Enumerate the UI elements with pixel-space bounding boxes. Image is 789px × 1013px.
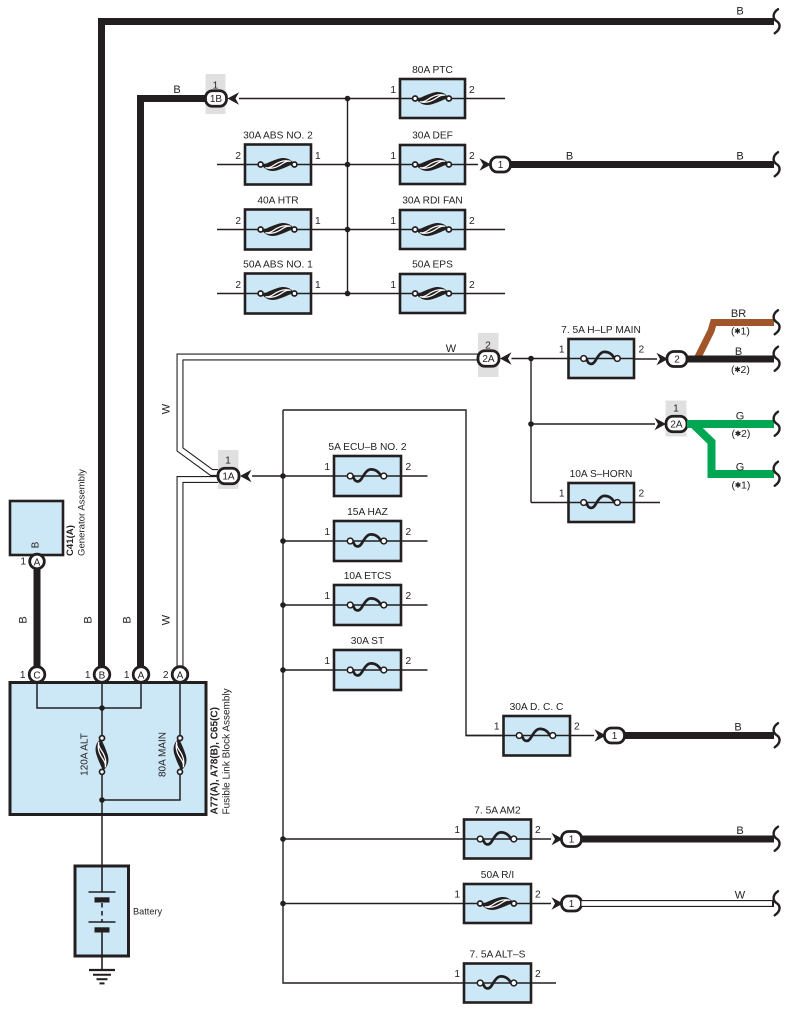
battery plate long top (89, 891, 116, 893)
svg-text:2A: 2A (482, 354, 495, 365)
svg-text:1: 1 (20, 670, 26, 681)
wire break R/I W (774, 891, 780, 915)
wire: x531 to connector 2A green (531, 423, 655, 425)
svg-text:1: 1 (324, 656, 330, 667)
wire: green G upper (687, 420, 774, 428)
svg-text:2: 2 (639, 489, 645, 500)
svg-text:1: 1 (559, 345, 565, 356)
svg-text:1: 1 (390, 280, 396, 291)
battery plate thick bottom (95, 927, 110, 932)
junction bus2 row ECU-B (280, 473, 286, 479)
svg-text:80A MAIN: 80A MAIN (158, 732, 169, 777)
svg-text:1: 1 (124, 670, 130, 681)
svg-text:(: ( (732, 428, 736, 440)
wire: thick B from D.C.C connector (625, 732, 775, 739)
svg-text:2: 2 (406, 527, 412, 538)
arrow out of H-LP MAIN (657, 353, 669, 365)
svg-text:G: G (736, 462, 745, 474)
connector 1 after AM2 (562, 832, 582, 847)
connector 1A oval (218, 468, 239, 484)
svg-text:A: A (34, 557, 41, 568)
wire row 2: stub through 30A ABS NO.2 and 30A DEF (217, 164, 478, 166)
svg-text:2: 2 (574, 722, 580, 733)
svg-text:1: 1 (225, 456, 231, 467)
wire row 10A ETCS (283, 604, 428, 606)
svg-text:B: B (736, 6, 743, 18)
wire break AM2 B (774, 827, 780, 851)
svg-text:2: 2 (469, 216, 475, 227)
connector 1B label plate (206, 74, 226, 114)
bus2 vertical x283 with bottom turn to ALT-S (283, 410, 556, 983)
battery plate thick top (95, 897, 110, 902)
svg-text:2: 2 (535, 890, 541, 901)
fusible link 80A MAIN (174, 736, 187, 775)
svg-text:2: 2 (674, 355, 680, 366)
connector 2A oval (478, 351, 499, 367)
junction bus2 row HAZ (280, 538, 286, 544)
wire: thick B from DEF connector to right edge (511, 161, 775, 168)
svg-text:B: B (31, 541, 42, 548)
svg-text:W: W (161, 614, 173, 625)
svg-text:15A HAZ: 15A HAZ (347, 507, 388, 518)
svg-text:2: 2 (535, 969, 541, 980)
svg-text:2: 2 (406, 462, 412, 473)
svg-text:2): 2) (741, 364, 750, 376)
connector 2A (white wire) label plate (478, 333, 499, 377)
svg-text:50A ABS NO. 1: 50A ABS NO. 1 (243, 260, 313, 271)
svg-text:7. 5A ALT–S: 7. 5A ALT–S (470, 950, 526, 961)
block internal wire pin B down (101, 683, 103, 736)
svg-text:G: G (736, 411, 745, 423)
svg-text:1): 1) (741, 326, 750, 338)
junction at x531 G row (528, 421, 534, 427)
bus wire vertical x347 (347, 99, 349, 294)
wire: thick B from connector 2 (687, 356, 774, 363)
svg-text:1B: 1B (210, 94, 223, 105)
block internal wire pin C to pin A (37, 683, 141, 709)
generator pin A circle (30, 554, 45, 569)
svg-text:30A ABS NO. 2: 30A ABS NO. 2 (243, 131, 313, 142)
connector 1 after R/I (562, 896, 582, 911)
wire row 50A R/I (283, 903, 551, 905)
svg-text:A77(A), A78(B), C65(C): A77(A), A78(B), C65(C) (210, 707, 221, 814)
connector 2A green label plate (666, 401, 687, 437)
svg-text:B: B (122, 616, 134, 623)
connector 1 after D.C.C (605, 728, 625, 743)
svg-text:1: 1 (315, 151, 321, 162)
svg-text:2: 2 (235, 280, 241, 291)
battery box (75, 866, 129, 956)
arrow into connector 1A (240, 470, 252, 482)
generator assembly C41(A) box (10, 501, 63, 555)
wire: white W from R/I connector (582, 900, 775, 907)
fuse 7.5A AM2 (464, 820, 531, 859)
svg-text:1: 1 (315, 216, 321, 227)
arrow out of R/I (552, 897, 564, 909)
wire: H-LP MAIN pin 2 to arrow (634, 358, 657, 360)
svg-text:1): 1) (741, 480, 750, 492)
svg-text:Generator Assembly: Generator Assembly (77, 469, 88, 556)
fusible link 120A ALT (96, 736, 109, 775)
svg-text:1: 1 (454, 825, 460, 836)
arrow out of AM2 (552, 833, 564, 845)
arrow out of 30A D.C.C (595, 729, 607, 741)
wire row 4: stub through 50A ABS NO.1 and 50A EPS (217, 293, 505, 295)
svg-text:1: 1 (390, 151, 396, 162)
fusible link 30A DEF (400, 145, 465, 184)
svg-text:1: 1 (20, 557, 26, 568)
fusible link 30A RDI FAN (400, 210, 465, 249)
wire: thick B from connector 1B down to fusible link pin A (137, 95, 207, 102)
svg-text:A: A (177, 670, 184, 681)
battery dashed middle (101, 903, 103, 922)
fusible link 30A ABS NO.2 (245, 145, 311, 185)
wire break DEF B wire (774, 152, 780, 176)
fuse 5A ECU-B NO.2 (334, 456, 401, 496)
fuse 30A D.C.C (466, 735, 594, 737)
junction inside block x102 y800 (99, 797, 105, 803)
svg-text:1A: 1A (222, 472, 235, 483)
wire break BR (774, 310, 780, 334)
wire block to battery (101, 800, 103, 866)
wire: green G branch lower (694, 425, 774, 474)
svg-text:30A D. C. C: 30A D. C. C (510, 702, 564, 713)
svg-text:C41(A): C41(A) (65, 525, 76, 556)
wire: brown BR branch (697, 323, 774, 360)
svg-text:1: 1 (673, 404, 679, 415)
svg-text:1: 1 (498, 160, 504, 171)
junction bus2 row ETCS (280, 602, 286, 608)
block pin C circle (29, 667, 45, 683)
white wire W: from fusible link pin A2 up to connector 1A (180, 480, 222, 667)
junction bus2 row AM2 (280, 836, 286, 842)
junction x347 row1 (345, 96, 351, 102)
wire row 3: stub through 40A HTR and 30A RDI FAN (217, 229, 505, 231)
svg-text:(: ( (732, 480, 736, 492)
svg-text:B: B (736, 825, 743, 837)
bus2 top horizontal to x466 and down to 30A D.C.C (283, 410, 504, 736)
white wire W: from connector 1A up and right to connector 2A (180, 357, 479, 473)
wire break B H-LP (774, 347, 780, 371)
junction bus2 row ST (280, 667, 286, 673)
wire row 15A HAZ (283, 540, 428, 542)
svg-text:W: W (161, 403, 173, 414)
svg-text:B: B (734, 722, 741, 734)
svg-text:2: 2 (235, 151, 241, 162)
wire: main B+ feed, left vertical to fusible link block pin B (98, 18, 105, 667)
fusible link 40A HTR (245, 210, 311, 250)
fusible link 50A R/I (464, 884, 531, 923)
wire: 2A arrow to 7.5A H-LP MAIN (512, 358, 569, 360)
wire break D.C.C B (774, 723, 780, 747)
connector 2A green oval (666, 416, 687, 432)
svg-text:30A RDI FAN: 30A RDI FAN (402, 196, 463, 207)
svg-text:2: 2 (163, 670, 169, 681)
junction x347 row3 (345, 227, 351, 233)
svg-text:1: 1 (324, 591, 330, 602)
ground symbol (89, 969, 115, 971)
wire: main B+ feed, top horizontal (98, 18, 774, 25)
svg-text:B: B (735, 346, 742, 358)
svg-text:2): 2) (741, 428, 750, 440)
svg-text:1: 1 (612, 731, 618, 742)
svg-text:1: 1 (390, 216, 396, 227)
junction inside block x102 y708 (99, 705, 105, 711)
wire: 1A arrow to 5A ECU-B NO.2 (252, 475, 428, 477)
svg-text:1: 1 (454, 890, 460, 901)
wire break top right (774, 9, 780, 33)
svg-text:Fusible Link Block Assembly: Fusible Link Block Assembly (222, 688, 233, 814)
svg-text:50A R/I: 50A R/I (481, 870, 514, 881)
block pin A circle (133, 667, 149, 683)
fuse 7.5A H-LP MAIN (569, 339, 635, 378)
svg-text:1: 1 (85, 670, 91, 681)
svg-text:B: B (736, 151, 743, 163)
svg-text:B: B (99, 670, 106, 681)
svg-text:1: 1 (569, 835, 575, 846)
svg-text:2: 2 (406, 591, 412, 602)
svg-text:1: 1 (324, 462, 330, 473)
block pin B circle (94, 667, 110, 683)
junction x347 row2 (345, 162, 351, 168)
svg-text:(: ( (731, 364, 735, 376)
svg-text:Battery: Battery (133, 907, 163, 917)
svg-text:5A ECU–B NO. 2: 5A ECU–B NO. 2 (328, 442, 406, 453)
svg-text:10A ETCS: 10A ETCS (344, 571, 392, 582)
fuse 7.5A ALT-S (464, 964, 531, 1003)
connector 1 after 30A DEF (491, 157, 511, 172)
block internal wire across to 80A MAIN (102, 774, 180, 800)
svg-text:30A ST: 30A ST (351, 636, 384, 647)
battery internal bottom lead (101, 932, 103, 970)
svg-text:7. 5A AM2: 7. 5A AM2 (474, 806, 521, 817)
block internal wire pin A2 down (179, 683, 181, 736)
svg-text:30A DEF: 30A DEF (412, 131, 453, 142)
svg-text:2: 2 (469, 85, 475, 96)
svg-text:A: A (138, 670, 145, 681)
fusible link block assembly box (10, 683, 206, 815)
svg-text:120A ALT: 120A ALT (80, 733, 91, 776)
connector 1A label plate (218, 450, 239, 489)
arrow out of 30A DEF (480, 158, 492, 170)
svg-text:1: 1 (494, 722, 500, 733)
svg-text:1: 1 (324, 527, 330, 538)
wire break G upper (774, 412, 780, 436)
svg-text:W: W (735, 890, 746, 902)
fuse 15A HAZ (334, 521, 401, 561)
wire row 1: connector 1B to 80A PTC (239, 98, 505, 100)
svg-text:C: C (33, 670, 40, 681)
svg-text:2: 2 (469, 151, 475, 162)
block internal wire under 120A ALT (101, 774, 103, 800)
svg-text:(: ( (731, 326, 735, 338)
wire break G lower (774, 462, 780, 486)
svg-text:10A S–HORN: 10A S–HORN (570, 469, 633, 480)
arrow into connector 1B (228, 92, 240, 104)
svg-text:1: 1 (390, 85, 396, 96)
svg-text:1: 1 (315, 280, 321, 291)
svg-text:W: W (446, 343, 457, 355)
wire: thick B generator to fusible link pin C (34, 566, 41, 667)
fuse 10A ETCS (334, 585, 401, 625)
arrow into connector 2A (500, 352, 512, 364)
wire row 30A ST (283, 669, 428, 671)
connector 2 after H-LP MAIN (667, 352, 687, 367)
fuse 10A S-HORN (569, 483, 635, 522)
svg-text:B: B (83, 616, 95, 623)
svg-text:1: 1 (454, 969, 460, 980)
arrow into connector 2A green (655, 418, 667, 430)
svg-text:2: 2 (235, 216, 241, 227)
svg-text:BR: BR (731, 308, 746, 320)
svg-text:2: 2 (406, 656, 412, 667)
vertical wire x531 down to S-HORN (530, 359, 532, 503)
wire: thick B from AM2 connector (582, 836, 775, 843)
svg-text:1: 1 (569, 899, 575, 910)
svg-text:2: 2 (469, 280, 475, 291)
junction x347 row4 (345, 291, 351, 297)
svg-text:2: 2 (535, 825, 541, 836)
svg-text:B: B (18, 616, 30, 623)
svg-text:40A HTR: 40A HTR (257, 196, 298, 207)
svg-text:1: 1 (559, 489, 565, 500)
svg-text:B: B (173, 84, 180, 96)
svg-text:7. 5A H–LP MAIN: 7. 5A H–LP MAIN (561, 325, 641, 336)
fusible link 50A EPS (400, 274, 465, 313)
block pin A2 circle (172, 667, 188, 683)
fusible link 50A ABS NO.1 (245, 274, 311, 314)
svg-text:80A PTC: 80A PTC (412, 65, 453, 76)
junction bus2 row R/I (280, 901, 286, 907)
fuse 30A ST (334, 650, 401, 690)
battery plate long bottom (89, 921, 116, 923)
svg-text:2: 2 (639, 345, 645, 356)
svg-text:50A EPS: 50A EPS (412, 260, 453, 271)
fusible link 80A PTC (400, 79, 465, 118)
wire row 10A S-HORN (531, 502, 660, 504)
battery internal top lead (101, 866, 103, 892)
svg-text:B: B (566, 151, 573, 163)
svg-text:2A: 2A (670, 420, 683, 431)
connector 1B oval (206, 91, 227, 107)
junction at x531 H-LP row (528, 356, 534, 362)
wire row 7.5A AM2 (283, 838, 551, 840)
